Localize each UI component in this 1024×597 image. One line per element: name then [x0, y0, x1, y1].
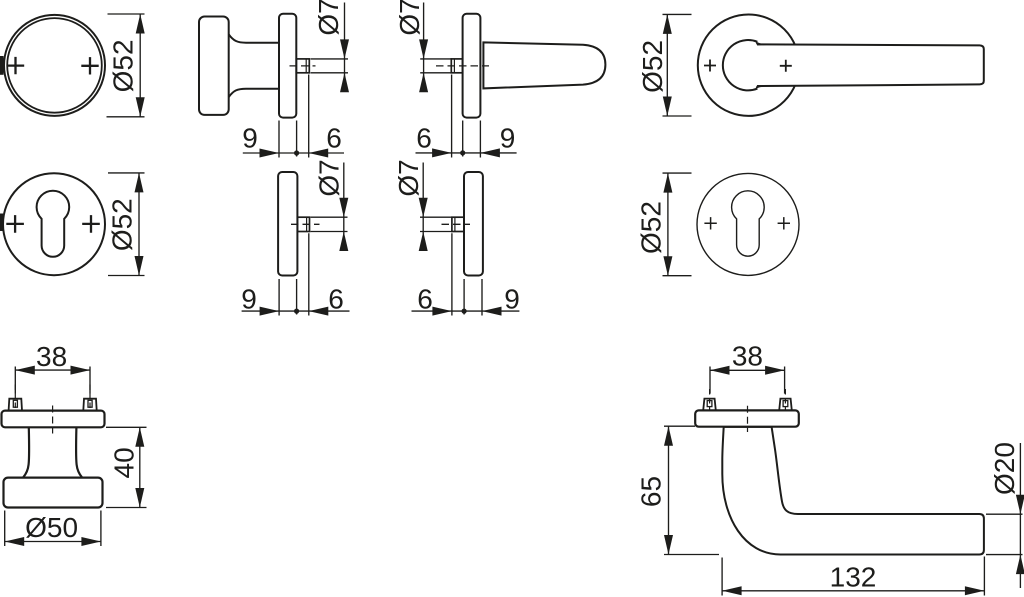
dim B 9/6 dimension line [243, 152, 344, 154]
dim I 38 arrow right [71, 366, 91, 375]
stud I right slot [88, 400, 92, 407]
dim G Ø7 line [422, 163, 424, 250]
rose A outer circle [4, 15, 105, 116]
dim C Ø7 extension lines [420, 59, 452, 73]
dim F Ø7 arrow down [339, 198, 348, 218]
dim C Ø7 line [423, 3, 425, 92]
dim G 6 arrow [432, 307, 452, 316]
dim D Ø52 arrow up [663, 14, 672, 34]
spindle stub C end line [453, 59, 455, 72]
dim E Ø52 line [138, 173, 140, 276]
knob B neck bottom edge [229, 89, 279, 97]
svg-text:Ø52: Ø52 [637, 40, 668, 93]
dim J 65 line [668, 426, 670, 554]
svg-text:38: 38 [732, 341, 763, 372]
screw cross D right [780, 60, 792, 72]
dim G chain dot [462, 309, 467, 314]
dim I 40 arrow up [135, 427, 144, 447]
dim I Ø50 dimension line [5, 541, 101, 543]
rose B slab [279, 14, 296, 118]
dim C 9 arrow [480, 148, 500, 157]
dim J 132 arrow left [722, 586, 742, 595]
dim G 6/9 dimension line [412, 310, 520, 312]
stud I left centerline [14, 385, 16, 416]
dim G Ø7 arrow up [419, 232, 428, 252]
dim C 6/9 dimension line [416, 152, 517, 154]
euro profile cutout E [37, 191, 70, 257]
svg-text:9: 9 [242, 123, 258, 154]
knob B head [199, 17, 229, 115]
screw cross D left [704, 60, 716, 72]
rose G slab [464, 172, 483, 276]
dim D Ø52 arrow down [663, 97, 672, 117]
centerline F [291, 223, 320, 225]
svg-text:6: 6 [416, 123, 432, 154]
dim I 38 extension lines [15, 367, 90, 394]
knob I neck right edge [76, 428, 82, 478]
stud I left [9, 399, 22, 411]
dim A Ø52 arrow down [136, 97, 145, 117]
dim I 40 arrow down [135, 488, 144, 508]
stud J left centerline [709, 389, 711, 415]
dim J 65 extension lines [664, 426, 719, 554]
rose C slab [463, 14, 481, 118]
dim I 38 arrow left [15, 366, 35, 375]
dim C Ø7 arrow down [419, 39, 428, 59]
stub G end line [454, 218, 456, 232]
dim J 38 arrow left [710, 366, 730, 375]
dim J 132 extension lines [722, 557, 984, 596]
svg-text:Ø50: Ø50 [25, 512, 78, 543]
svg-text:9: 9 [500, 123, 516, 154]
dim F 9/6 dimension line [242, 310, 350, 312]
dim H Ø52 arrow up [663, 173, 672, 193]
dim B Ø7 extension lines [311, 59, 349, 73]
dim J Ø20 arrow up [1016, 555, 1024, 575]
dim F 9/6 extension lines [279, 233, 309, 315]
svg-text:Ø20: Ø20 [989, 442, 1020, 495]
dim F 6 arrow [309, 307, 329, 316]
spindle stub C [451, 59, 462, 73]
dim A Ø52 extension ticks [107, 14, 145, 117]
dim G Ø7 arrow down [419, 198, 428, 218]
dim H Ø52 extension ticks [663, 173, 692, 276]
knob I rose plate [2, 411, 105, 428]
knob I plate centerline [52, 406, 54, 434]
stud J left [703, 399, 716, 411]
dim F 9 arrow [260, 307, 280, 316]
dim I 40 line [139, 427, 141, 507]
lever J rose plate [695, 410, 799, 426]
dim F Ø7 arrow up [339, 232, 348, 252]
fixed knob C cone [483, 42, 605, 88]
stud J right slot [783, 401, 788, 407]
screw cross E left [6, 215, 24, 233]
lever D bar outline [757, 44, 984, 86]
svg-text:Ø52: Ø52 [636, 201, 667, 254]
stud J right [779, 399, 792, 411]
rose E circle [3, 173, 105, 275]
svg-text:132: 132 [830, 562, 877, 593]
dim B 6 arrow [309, 149, 329, 158]
spindle stub B end line [305, 59, 307, 72]
lever D neck spur bottom [756, 85, 772, 89]
dim B chain dot [294, 150, 299, 155]
dim J 132 arrow right [965, 586, 985, 595]
dim B 9/6 extension lines [279, 75, 309, 158]
screw cross right [81, 57, 98, 74]
dim D Ø52 extension ticks [663, 14, 692, 116]
dim J Ø20 line [1019, 443, 1021, 588]
svg-text:9: 9 [241, 284, 257, 315]
spindle stub B [296, 59, 309, 73]
dim G 6/9 extension lines [452, 233, 482, 315]
dim C Ø7 arrow up [419, 73, 428, 93]
dim D Ø52 line [666, 14, 668, 116]
knob I head [4, 478, 103, 508]
dim J 38 extension lines [710, 367, 785, 394]
dim I Ø50 arrow left [5, 537, 25, 546]
knob I neck left edge [23, 428, 29, 478]
svg-text:38: 38 [36, 341, 67, 372]
dim B Ø7 line [344, 3, 346, 92]
dim C 6/9 extension lines [452, 75, 481, 158]
lever D neck arc [723, 40, 758, 90]
dim I 40 extension lines [106, 427, 147, 507]
svg-text:Ø7: Ø7 [314, 159, 345, 196]
centerline B [290, 65, 316, 67]
dim I Ø50 arrow right [81, 537, 101, 546]
screw cross E right [82, 215, 100, 233]
knob B neck top edge [229, 34, 279, 42]
dim J Ø20 extension lines [986, 514, 1023, 554]
dim A Ø52 line [139, 14, 141, 117]
dim F Ø7 line [343, 163, 345, 250]
dim E Ø52 arrow up [135, 173, 144, 193]
dim B Ø7 arrow up [340, 73, 349, 93]
stud I left slot [13, 400, 17, 407]
rose H circle [697, 173, 799, 275]
stud J left slot [707, 401, 712, 407]
rose F slab [278, 172, 297, 276]
dim A Ø52 arrow up [136, 14, 145, 34]
dim B Ø7 arrow down [340, 39, 349, 59]
lever J handle profile [722, 427, 984, 555]
svg-text:40: 40 [108, 447, 139, 478]
dim H Ø52 line [667, 173, 669, 276]
dim F Ø7 extension lines [311, 217, 348, 231]
lever D neck spur top [756, 41, 772, 45]
screw cross left [7, 57, 24, 74]
svg-text:Ø52: Ø52 [108, 39, 139, 92]
dim C chain dot [460, 150, 465, 155]
dim F chain dot [294, 309, 299, 314]
stub G [452, 217, 464, 231]
dim G Ø7 extension lines [420, 217, 453, 231]
rose D circle [698, 14, 799, 115]
stud I right [83, 399, 96, 411]
svg-text:Ø52: Ø52 [107, 198, 138, 251]
dim J 38 arrow right [765, 366, 785, 375]
svg-text:Ø7: Ø7 [394, 0, 425, 36]
screw cross H right [778, 217, 790, 229]
dim I 38 dimension line [15, 369, 90, 371]
euro profile cutout H [732, 191, 765, 256]
stud J right centerline [784, 389, 786, 415]
dim J 132 dimension line [722, 590, 984, 592]
rose A fixing tab (left edge) [0, 56, 4, 75]
svg-text:6: 6 [417, 284, 433, 315]
stub F [297, 217, 309, 231]
rose A inner circle [7, 18, 102, 113]
stud I right centerline [89, 385, 91, 416]
rose E fixing tab [0, 214, 3, 232]
dim E Ø52 extension ticks [108, 173, 145, 276]
lever D bar fill [756, 45, 984, 87]
centerline G [442, 223, 471, 225]
stub F end line [306, 218, 308, 232]
svg-text:6: 6 [328, 284, 344, 315]
dim E Ø52 arrow down [135, 256, 144, 276]
dim G 9 arrow [482, 307, 502, 316]
lever J plate centerline [747, 406, 749, 432]
dim C 6 arrow [432, 148, 452, 157]
svg-text:Ø7: Ø7 [393, 159, 424, 196]
dim J 65 arrow down [664, 535, 673, 555]
svg-text:9: 9 [504, 284, 520, 315]
dim J Ø20 arrow down [1016, 495, 1024, 515]
dim B 9 arrow [260, 149, 280, 158]
svg-text:65: 65 [635, 476, 666, 507]
dim J 38 dimension line [710, 369, 785, 371]
centerline C [436, 65, 489, 67]
dim H Ø52 arrow down [663, 256, 672, 276]
screw cross H left [704, 217, 716, 229]
svg-text:6: 6 [326, 123, 342, 154]
svg-text:Ø7: Ø7 [313, 0, 344, 36]
dim J 65 arrow up [664, 426, 673, 446]
dim I Ø50 extension lines [5, 511, 101, 547]
